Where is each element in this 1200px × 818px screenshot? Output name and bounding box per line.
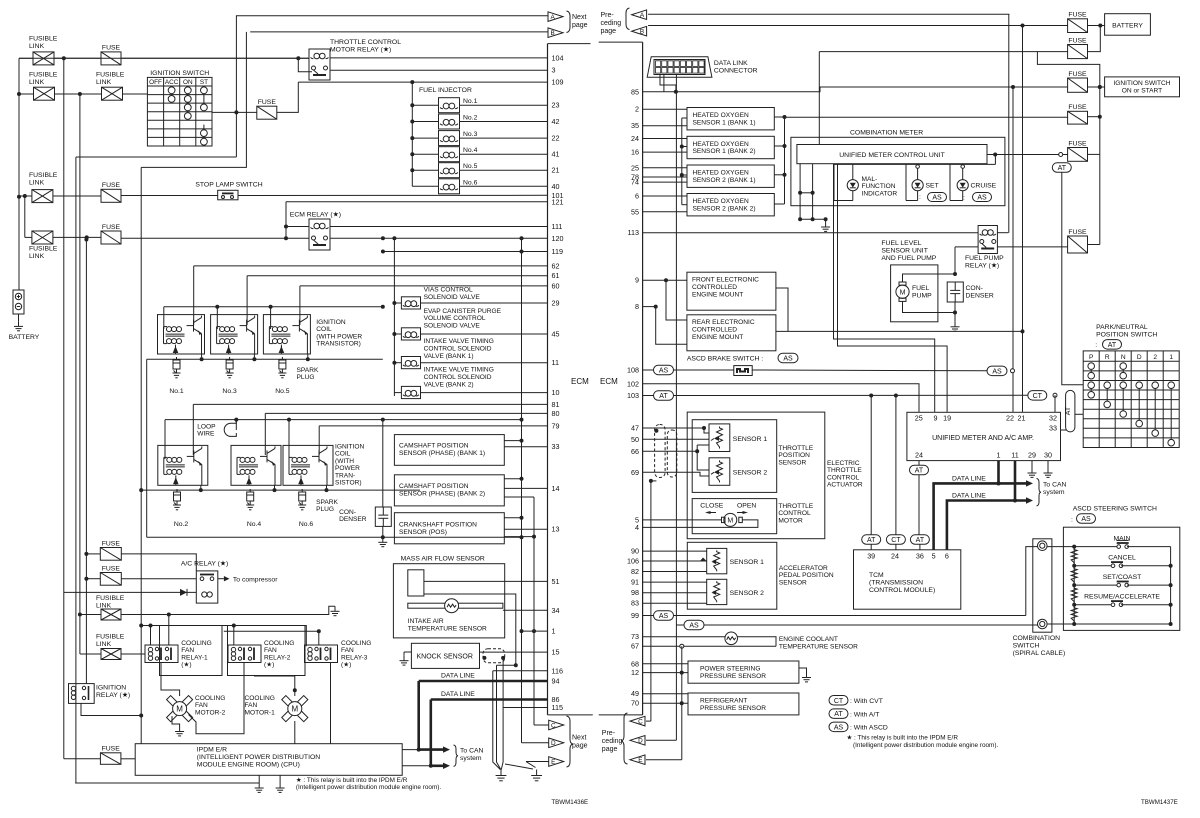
wire data line B (947, 501, 1026, 550)
label intake valve timing control solenoid valve (bank 1) (424, 338, 494, 360)
svg-text:ENGINE COOLANT: ENGINE COOLANT (779, 636, 838, 643)
svg-text:page: page (572, 743, 588, 750)
IPDM E/R box (135, 744, 402, 776)
wire injector 6 left (412, 185, 438, 187)
junction valve feed (392, 301, 396, 365)
svg-text:119: 119 (552, 247, 563, 256)
label AS steering oval (1077, 514, 1096, 524)
fuse ignition 4 (1068, 104, 1088, 124)
wire IPDM ground line (75, 782, 259, 784)
svg-text:THROTTLE: THROTTLE (827, 467, 862, 474)
wire data line pin 94 (419, 680, 548, 683)
wire pin 12 (643, 672, 688, 674)
wire rail R4 (79, 94, 81, 654)
wire 119-120 link (521, 238, 523, 251)
wire valve feed vertical (393, 238, 395, 396)
svg-text:INTAKE VALVE TIMING: INTAKE VALVE TIMING (424, 338, 494, 345)
svg-text:8: 8 (635, 302, 639, 311)
junction 103 branches (869, 394, 898, 398)
svg-text:MAIN: MAIN (1114, 536, 1131, 543)
label AS legend (829, 722, 848, 732)
wire spiral bottom left (704, 624, 1038, 626)
wire pump bottom (903, 301, 956, 312)
wire battery rail R1 (18, 58, 20, 290)
wire B vertical (1022, 26, 1024, 412)
fuse A/C 1 (100, 540, 121, 560)
svg-text:TRAN-: TRAN- (335, 472, 355, 479)
spark plug No.3 (226, 357, 234, 378)
svg-text:PUMP: PUMP (912, 293, 932, 300)
camshaft position sensor (phase) (bank 2) (394, 475, 504, 506)
wire rear mount right (776, 330, 1023, 332)
diagram number left page (551, 799, 588, 806)
wire relay contact feed (298, 58, 312, 72)
svg-text:DATA LINE: DATA LINE (952, 476, 986, 483)
wire DLC drop 2 (663, 75, 665, 92)
wire coolant right (738, 637, 777, 647)
svg-text:To CAN: To CAN (460, 748, 484, 755)
wire A to R3 (76, 156, 237, 158)
svg-text:page: page (601, 28, 617, 35)
svg-text:PARK/NEUTRAL: PARK/NEUTRAL (1096, 324, 1148, 331)
wire fuse6 right (1088, 244, 1100, 246)
label AS set (928, 193, 947, 202)
battery (13, 290, 24, 314)
label CT (1028, 391, 1047, 401)
label cruise (963, 183, 997, 202)
svg-text:ENGINE MOUNT: ENGINE MOUNT (692, 334, 743, 341)
wire fuse3 to ignition switch (1088, 85, 1105, 89)
svg-text:DATA LINK: DATA LINK (714, 60, 748, 67)
ECM label (571, 377, 589, 386)
label AS line2 (684, 620, 704, 630)
junction R4 top (78, 92, 82, 617)
svg-text:33: 33 (1049, 424, 1057, 433)
svg-text:A: A (550, 14, 555, 21)
wire injector 1 left (412, 104, 438, 106)
fuse IPDM (100, 746, 121, 765)
svg-text:No.4: No.4 (463, 147, 478, 154)
mass air flow sensor inner element (408, 570, 424, 596)
label CT TCM24 (886, 535, 905, 545)
throttle control motor (722, 513, 743, 526)
stop lamp switch (218, 190, 238, 200)
cooling fan relay-1 (145, 645, 178, 663)
wire fuse AC2 to AC relay contact (121, 578, 196, 580)
svg-text:FUSIBLE: FUSIBLE (29, 172, 58, 179)
HEATED OXYGEN SENSOR 1 (BANK 1) (687, 108, 774, 130)
TCM box (854, 550, 961, 609)
svg-text:13: 13 (552, 525, 560, 534)
ground cooling fan motor-2 (175, 727, 184, 736)
svg-text:2: 2 (635, 105, 639, 114)
label cooling fan motor-2 (195, 695, 226, 716)
wire fuse5 right (1088, 153, 1100, 155)
spark plug No.5 (278, 357, 286, 378)
svg-text:No.2: No.2 (463, 115, 478, 122)
svg-text:ELECTRIC: ELECTRIC (827, 460, 860, 467)
tps sensor 1 box (709, 424, 730, 452)
wire AT drop to PNP (1062, 172, 1083, 384)
svg-text:FUEL LEVEL: FUEL LEVEL (881, 240, 921, 247)
svg-text:M: M (176, 705, 183, 714)
svg-text:94: 94 (552, 677, 560, 686)
junction condenser (953, 272, 957, 315)
svg-text:No.6: No.6 (299, 521, 314, 528)
wire shield drain down C (650, 481, 652, 721)
wire 66 links (697, 445, 709, 470)
svg-text:FAN: FAN (245, 702, 258, 709)
svg-text:AND FUEL PUMP: AND FUEL PUMP (881, 255, 936, 262)
junction pin 12 (680, 671, 684, 675)
ground shield 2 (531, 770, 542, 781)
wire FL6 left (80, 653, 101, 655)
labels No.1 No.3 No.5 (169, 388, 289, 395)
wire pin 68 (643, 663, 688, 665)
wire injector 3 left (412, 137, 438, 139)
svg-text:MOTOR RELAY (★): MOTOR RELAY (★) (330, 46, 391, 54)
svg-text:★ : This relay is built into t: ★ : This relay is built into the IPDM E/… (296, 777, 408, 784)
spark plug No.1 (173, 357, 181, 378)
label intake air temperature sensor (408, 618, 487, 632)
wire injector 2 to ECM (460, 121, 548, 123)
junction ign rail (1098, 85, 1102, 119)
wire arrow D (646, 739, 676, 741)
engine coolant temperature sensor (725, 632, 738, 645)
label fuel pump relay (965, 255, 1004, 270)
wire relay1 contact down (161, 663, 180, 697)
svg-text:FUEL: FUEL (912, 285, 930, 292)
svg-text:SENSOR: SENSOR (778, 459, 806, 466)
svg-text:CAMSHAFT POSITION: CAMSHAFT POSITION (399, 443, 469, 450)
wire fuel pump relay contact left (955, 246, 978, 248)
svg-text:SPARK: SPARK (297, 367, 319, 374)
wire fuse1 to battery (1088, 24, 1105, 28)
svg-text:HEATED OXYGEN: HEATED OXYGEN (693, 170, 750, 177)
label app sensor 1 (730, 559, 765, 566)
label EVAP canister purge volume control solenoid valve (424, 308, 502, 330)
wire pin 90 (643, 550, 707, 552)
label fuel level sensor unit (881, 240, 936, 262)
tps sensor 2 box (709, 458, 730, 486)
wire crank supply (504, 517, 521, 519)
ignition coil No.5 (with power transistor) (263, 315, 310, 354)
svg-text:COOLING: COOLING (264, 640, 294, 647)
fuel injector No.5 (439, 163, 460, 178)
svg-text:9: 9 (934, 414, 938, 423)
label AS brake title (778, 353, 798, 363)
svg-text:page: page (572, 22, 588, 29)
fusible link FL3 (32, 190, 53, 203)
wire injector 3 to ECM (460, 137, 548, 139)
next page arrow B (548, 28, 563, 38)
next page brace bottom (567, 716, 588, 767)
VIAS control solenoid valve (401, 297, 420, 309)
svg-text:RELAY (★): RELAY (★) (965, 262, 999, 270)
wire UMCU grounds (798, 164, 828, 222)
junction emitter bus row2 (199, 488, 329, 492)
svg-text:CONTROL MODULE): CONTROL MODULE) (869, 587, 935, 594)
wire pin33 to AT capsule (1061, 426, 1071, 430)
svg-text:THROTTLE CONTROL: THROTTLE CONTROL (330, 39, 401, 46)
ECM connector bar (548, 44, 593, 715)
preceding page label bottom right (602, 730, 623, 753)
wire fan feed row (121, 606, 335, 614)
junction fan row2 (149, 624, 236, 628)
svg-text:AT: AT (834, 711, 843, 718)
wire relay to pin 111 right (330, 226, 548, 228)
fuse fuel pump 6 (1068, 229, 1088, 253)
wire FL2 row (19, 93, 34, 95)
ignition coil No.1 (with power transistor) (158, 315, 205, 354)
svg-text:POWER STEERING: POWER STEERING (700, 666, 760, 673)
wire pin 49 (643, 693, 688, 695)
svg-text:COIL: COIL (316, 326, 332, 333)
wire pin 82 (643, 571, 707, 573)
intake valve timing control solenoid valve bank2 (401, 386, 420, 398)
wire stop lamp to pin 101 (238, 194, 548, 196)
wire pin29 ground (1031, 461, 1033, 468)
svg-text:14: 14 (552, 484, 560, 493)
svg-text:FUSE: FUSE (258, 99, 277, 106)
svg-text:PLUG: PLUG (297, 374, 315, 381)
wire HO2S 2b1 pin (643, 176, 687, 178)
label ignition relay (96, 685, 130, 700)
fuse ignition 3 (1068, 71, 1088, 93)
junction 47 (654, 426, 706, 433)
wire fan row2 (141, 626, 306, 647)
svg-text:1: 1 (552, 627, 556, 636)
wire FL1 to fuse (54, 57, 101, 59)
wire IPDM ground drop 1 (258, 775, 260, 783)
set indicator lamp (912, 180, 923, 191)
svg-text:(★): (★) (264, 661, 274, 669)
wire knock to pin 15 (480, 651, 548, 653)
wire FL4 riser (24, 196, 26, 237)
wire 66 branch s1 (697, 444, 709, 446)
label ECM relay (290, 211, 341, 219)
svg-text:RESUME/ACCELERATE: RESUME/ACCELERATE (1084, 594, 1160, 601)
wire fuse2 branch down (1037, 52, 1099, 245)
wire relay coil right (997, 232, 1008, 234)
wire valve to ECM EVAP canister purge volume control solenoid valve (421, 333, 548, 335)
wire emitter drop5 (307, 354, 309, 359)
wire pin 85 to fuse (643, 87, 1068, 92)
wire fuse4 to ECM relay row (121, 237, 309, 239)
wire shield link drop (497, 665, 501, 769)
wire emitter drop4 (274, 485, 276, 490)
fuel injector No.2 (439, 114, 460, 129)
condenser left page (375, 507, 391, 526)
ECM pin number labels (left page) (552, 53, 564, 712)
throttle position sensor inner box (692, 420, 777, 493)
svg-text:DENSER: DENSER (339, 516, 367, 523)
svg-text:42: 42 (552, 117, 560, 126)
svg-text:C: C (551, 722, 556, 729)
EVAP canister purge volume control solenoid valve (401, 328, 420, 340)
throttle control motor box (692, 499, 777, 534)
wire data line A (934, 483, 1026, 549)
label throttle control motor relay (330, 39, 401, 54)
spark plug No.2 (173, 489, 181, 510)
fuel pump relay (978, 226, 997, 254)
svg-text:82: 82 (631, 567, 639, 576)
wire B rail down (140, 167, 142, 743)
wire valve to ECM intake valve timing control solenoid valve bank2 (421, 392, 548, 394)
label injector No.1 (463, 98, 478, 105)
data line A arrow (1026, 480, 1033, 486)
wire motor1 link (254, 675, 295, 677)
next page arrow D (549, 738, 564, 748)
svg-text:ACTUATOR: ACTUATOR (827, 482, 863, 489)
wire arrow E (646, 759, 682, 761)
svg-text:To compressor: To compressor (233, 577, 278, 584)
spark plug No.4 (246, 489, 254, 510)
wire HO2S 2b1 pin (643, 181, 687, 183)
junction 120 rail bottom (520, 535, 524, 539)
svg-text:A/C RELAY (★): A/C RELAY (★) (181, 560, 228, 568)
svg-text:COMBINATION: COMBINATION (1013, 635, 1061, 642)
svg-text:40: 40 (552, 182, 560, 191)
svg-text:FUSE: FUSE (102, 224, 121, 231)
svg-text:49: 49 (631, 689, 639, 698)
junction B line (1021, 24, 1025, 28)
svg-text:16: 16 (631, 148, 639, 157)
svg-text:36: 36 (916, 552, 924, 561)
wire FL4 row (25, 236, 32, 238)
wire 120 rail down (521, 252, 523, 538)
wire DLC drop 1 (660, 75, 676, 92)
svg-text:AT: AT (867, 537, 876, 544)
wire indicator stems (834, 155, 995, 201)
svg-text:60: 60 (552, 281, 560, 290)
svg-text:No.1: No.1 (463, 98, 478, 105)
svg-text:69: 69 (631, 468, 639, 477)
wire to arrow D (522, 742, 549, 744)
label ignition coil row1 (316, 319, 362, 348)
wire A vertical to fuel pump relay (1008, 14, 1010, 232)
label ascd steering switch (1073, 506, 1157, 513)
wire condenser bottom (382, 526, 384, 537)
svg-text:MOTOR: MOTOR (778, 517, 803, 524)
wire pin 47 (643, 427, 704, 429)
wire AT capsule to PNP (1075, 413, 1083, 415)
cooling fan motor-2 (167, 696, 193, 722)
wire cam2 signal pin 14 (504, 487, 547, 489)
wire injector 2 left (412, 121, 438, 123)
wire AS to switch (674, 369, 734, 371)
wire pin 62 to coil1 base (194, 265, 548, 267)
unified meter control unit (797, 145, 987, 164)
svg-text:PRESSURE SENSOR: PRESSURE SENSOR (700, 705, 766, 712)
label AS cruise (973, 193, 992, 202)
wire 69 shield (651, 480, 657, 482)
label CT legend (829, 696, 848, 706)
svg-text:M: M (291, 705, 298, 714)
junction ign sw output (234, 110, 238, 114)
label with CVT (850, 698, 883, 705)
svg-text:ECM: ECM (571, 377, 589, 386)
ignition switch on/start box (1105, 77, 1180, 97)
svg-text:DATA LINE: DATA LINE (952, 493, 986, 500)
wire AS line2 left (676, 624, 684, 626)
svg-text:19: 19 (943, 414, 951, 423)
junction data line B (1013, 499, 1017, 503)
junction 66 (695, 449, 699, 453)
label engine coolant temperature sensor (779, 636, 858, 650)
wire spiral bottom right (1047, 623, 1074, 625)
svg-text:70: 70 (631, 699, 639, 708)
wire to compressor with arrow (218, 576, 278, 584)
junction DLC on 85 (674, 90, 678, 94)
svg-text:66: 66 (631, 447, 639, 456)
wire pin 121 (286, 201, 548, 203)
label AT pnp (1095, 342, 1097, 349)
wire relay2 drop (233, 626, 235, 646)
svg-text:E: E (638, 757, 642, 764)
svg-text:FUSE: FUSE (1068, 71, 1087, 78)
wire fuse AC1 left (86, 553, 100, 555)
svg-text:CON-: CON- (339, 509, 356, 516)
junction motor1 top (293, 688, 297, 692)
wire 81 drop (192, 404, 194, 455)
wire HO2S left v3 (682, 174, 687, 176)
wire unified pin11 drop (1014, 461, 1017, 501)
unified meter pin labels top (915, 414, 1057, 433)
wire front mount right (776, 288, 788, 331)
fuel injector No.4 (439, 147, 460, 162)
wire UMCU feed from fuse2 (819, 51, 1067, 53)
junction R2 top (62, 56, 66, 60)
svg-text:22: 22 (1006, 414, 1014, 423)
wire fan row3 (224, 630, 319, 632)
label AT unified 24 (910, 465, 929, 475)
wire arrow C (646, 720, 651, 722)
ascd steering switch box (1063, 527, 1179, 630)
svg-text:6: 6 (635, 192, 639, 201)
svg-text:(★): (★) (181, 661, 191, 669)
wire relay coil to pin 111 (286, 226, 309, 228)
wire fan loop around relay1 (160, 626, 223, 676)
svg-text:THROTTLE: THROTTLE (778, 445, 813, 452)
wire emitter drop1 (201, 354, 203, 359)
ECM connector bar right page (599, 42, 643, 715)
svg-text:IGNITION: IGNITION (96, 685, 126, 692)
wire cam1 signal pin 33 (504, 446, 547, 448)
svg-text:FUSE: FUSE (1068, 37, 1087, 44)
ECM label right (600, 377, 618, 386)
wire battery to ground (18, 314, 20, 321)
svg-text:32: 32 (1049, 414, 1057, 423)
svg-text:116: 116 (552, 666, 563, 675)
svg-text:No.5: No.5 (463, 163, 478, 170)
wire E vertical (681, 703, 683, 760)
svg-text:DENSER: DENSER (966, 293, 994, 300)
wire pin 9 (643, 279, 687, 281)
preceding page arrow B (632, 26, 647, 36)
svg-text:6: 6 (945, 552, 949, 561)
svg-text:FUSIBLE: FUSIBLE (29, 72, 58, 79)
svg-text:ACC: ACC (165, 79, 179, 86)
svg-text:74: 74 (631, 178, 639, 187)
wire pin22 vertical (1012, 87, 1014, 412)
wire fuse AC1 to compressor relay (121, 554, 196, 571)
svg-text:5: 5 (932, 552, 936, 561)
svg-text:90: 90 (631, 547, 639, 556)
A/C relay (196, 571, 218, 603)
svg-text:No.6: No.6 (463, 179, 478, 186)
wire fuse AC2 left (86, 578, 100, 580)
